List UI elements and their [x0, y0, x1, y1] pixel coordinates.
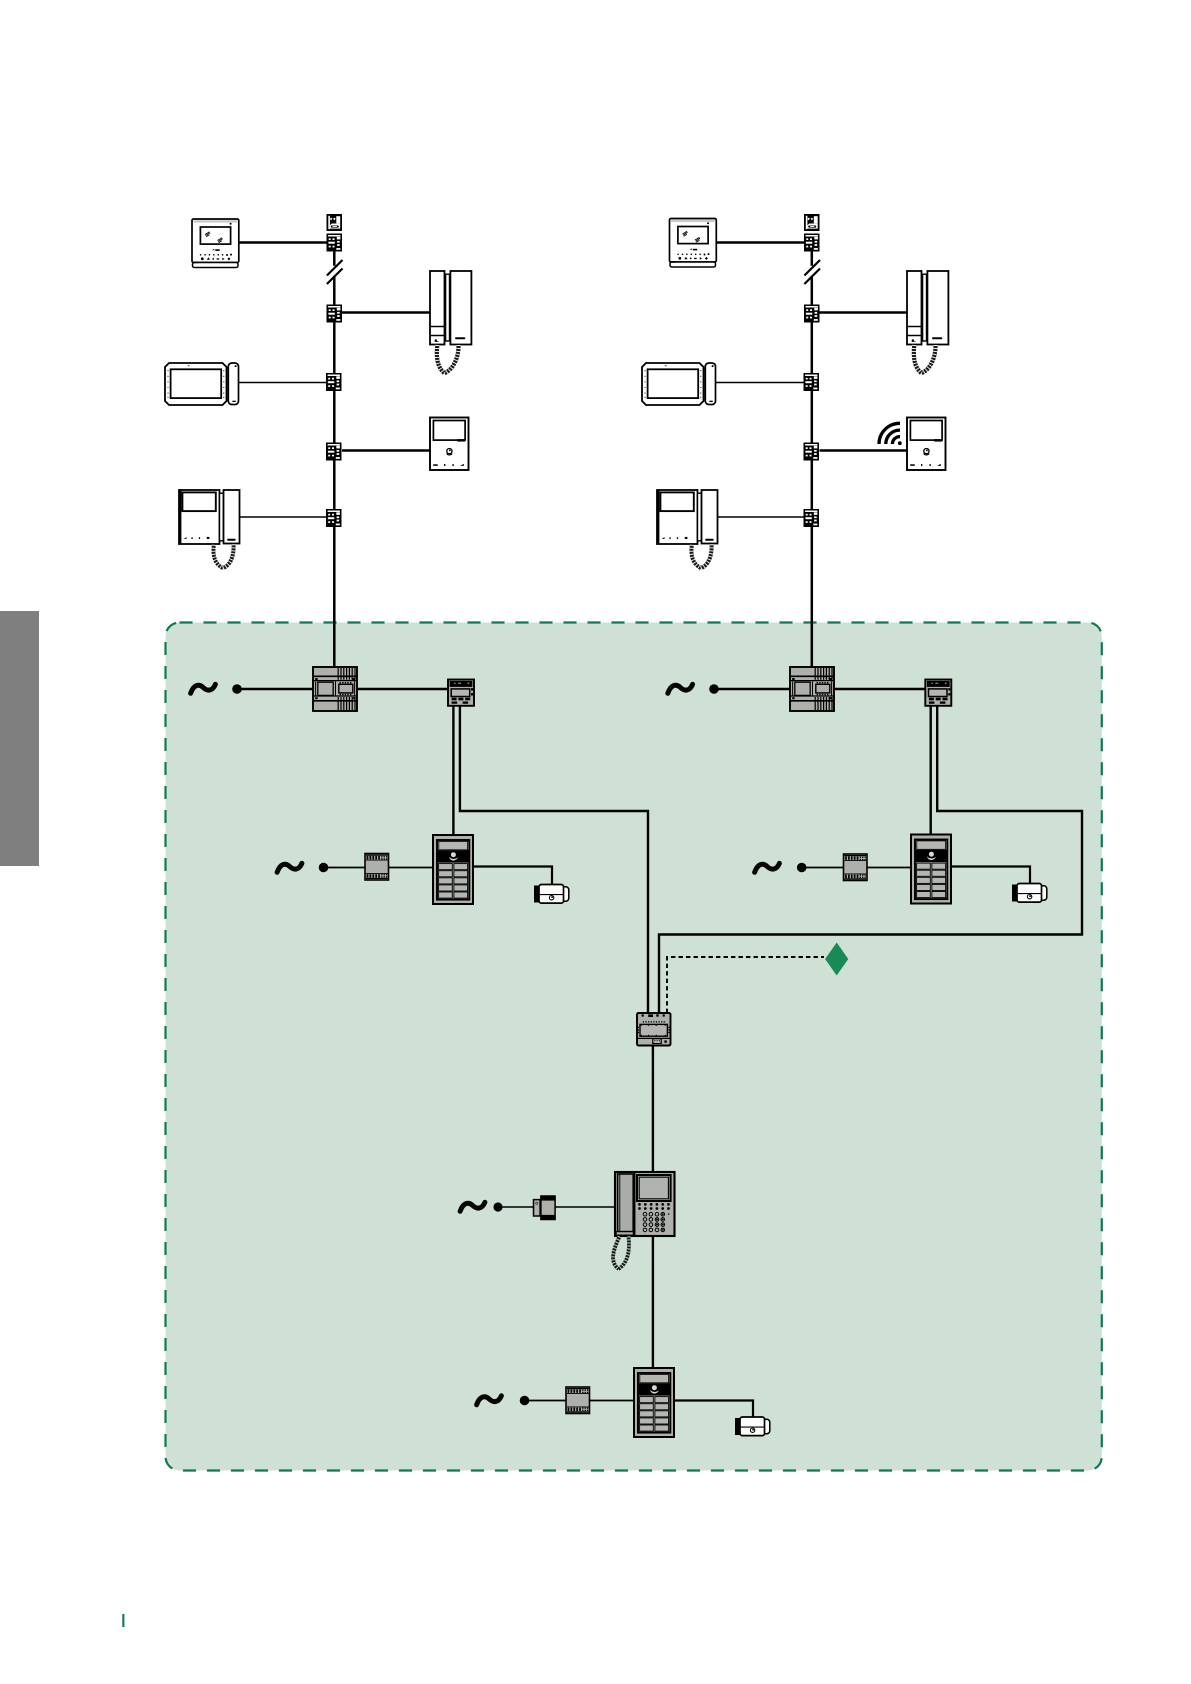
- wire: [674, 1401, 753, 1417]
- AC mains symbol: [191, 684, 216, 693]
- wire: [820, 449, 908, 451]
- video internal unit M2: [430, 418, 469, 471]
- option diamond: [825, 943, 848, 976]
- entrance panel EP3: [634, 1368, 674, 1437]
- door lock module A4: [566, 1387, 590, 1414]
- touchscreen internal unit T2: [642, 363, 716, 405]
- wire: [357, 688, 448, 690]
- video handset internal unit M3: [179, 490, 240, 568]
- door lock release L1: [534, 885, 569, 904]
- wire: [242, 688, 314, 690]
- page footer tick: [122, 1614, 124, 1627]
- power supply PS2: [790, 667, 834, 711]
- wire: [867, 867, 911, 869]
- video internal unit M4: [670, 219, 717, 268]
- floor distributor D2: [804, 214, 820, 231]
- wire: [239, 516, 326, 518]
- AC mains symbol: [460, 1202, 485, 1211]
- mains node: [709, 684, 719, 694]
- wire: [834, 688, 925, 690]
- mains node: [493, 1202, 502, 1211]
- audio internal unit H1: [430, 271, 471, 373]
- power supply PS1: [313, 667, 357, 711]
- door lock module A2: [844, 854, 868, 881]
- option dashed link: [667, 957, 824, 1013]
- wire: [555, 1206, 615, 1208]
- wire: [342, 311, 430, 313]
- wire: [659, 706, 1082, 1013]
- wire: [239, 382, 326, 384]
- wire: [717, 241, 805, 243]
- wire: [239, 241, 327, 243]
- wire: [811, 461, 814, 510]
- wire: [652, 1046, 654, 1173]
- riser connector block B10: [804, 509, 820, 527]
- wire: [333, 391, 336, 443]
- wire: [930, 706, 932, 835]
- wire: [333, 252, 336, 266]
- wire: [333, 527, 336, 667]
- riser connector block B5: [326, 509, 342, 527]
- riser break mark: [327, 260, 343, 284]
- riser connector block B3: [326, 373, 342, 391]
- wire: [716, 382, 804, 384]
- mains node: [319, 863, 329, 873]
- wire: [328, 867, 365, 869]
- door lock release L3: [735, 1417, 770, 1436]
- entrance panel EP1: [433, 835, 473, 904]
- AC mains symbol: [277, 863, 302, 872]
- riser interface U1: [448, 680, 474, 706]
- wire: [452, 706, 454, 835]
- wifi signal mark: [879, 423, 900, 444]
- wire: [529, 1400, 566, 1402]
- floor distributor D1: [327, 214, 343, 231]
- wire: [811, 323, 814, 374]
- door lock module A1: [365, 854, 389, 881]
- wire: [820, 311, 908, 313]
- video handset internal unit M6: [657, 490, 718, 568]
- wire: [502, 1206, 533, 1208]
- riser connector block B8: [804, 373, 820, 391]
- wire: [811, 391, 814, 443]
- wireless video internal unit M5: [907, 418, 946, 471]
- entrance panel EP2: [911, 835, 951, 904]
- AC mains symbol: [755, 863, 780, 872]
- wire: [389, 867, 434, 869]
- wire: [806, 867, 843, 869]
- riser connector block B6: [804, 234, 820, 252]
- sidebar tab: [0, 611, 39, 866]
- wire: [717, 516, 804, 518]
- wire: [719, 688, 791, 690]
- riser connector block B7: [804, 305, 820, 323]
- audio internal unit H2: [907, 271, 948, 373]
- riser connector block B1: [327, 234, 343, 252]
- wire: [333, 323, 336, 374]
- video internal unit M1: [192, 219, 239, 268]
- wire: [652, 1237, 654, 1369]
- AC mains symbol: [668, 684, 693, 693]
- riser connector block B4: [326, 443, 342, 461]
- supply adapter A3: [534, 1196, 556, 1220]
- wire: [811, 276, 814, 305]
- door lock release L2: [1012, 884, 1047, 903]
- wire: [333, 461, 336, 510]
- wire: [590, 1400, 635, 1402]
- wifi dot: [898, 441, 902, 445]
- riser break mark: [804, 260, 820, 284]
- mains node: [797, 863, 807, 873]
- concierge switchboard SW1: [613, 1172, 674, 1269]
- riser connector block B9: [804, 443, 820, 461]
- wire: [460, 706, 648, 1013]
- wire: [342, 449, 430, 451]
- riser connector block B2: [327, 305, 343, 323]
- wire: [811, 252, 814, 266]
- touchscreen internal unit T1: [165, 363, 239, 405]
- riser interface U2: [925, 680, 951, 706]
- building block zone: [166, 623, 1102, 1471]
- wire: [333, 276, 336, 305]
- AC mains symbol: [477, 1396, 502, 1405]
- mains node: [232, 684, 242, 694]
- wire: [951, 867, 1030, 884]
- wire: [473, 867, 552, 885]
- wire: [811, 527, 814, 667]
- mains node: [520, 1396, 530, 1406]
- backbone interface U3: [637, 1013, 671, 1046]
